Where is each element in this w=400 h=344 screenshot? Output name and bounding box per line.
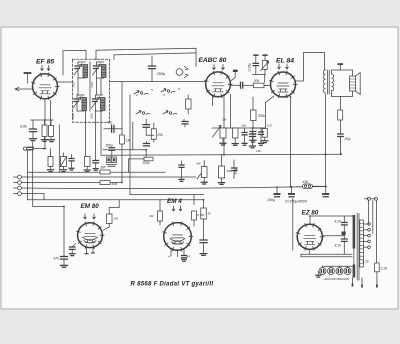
power transformer primary winding	[360, 220, 364, 267]
capacitor 250p	[151, 56, 153, 66]
ground under tone resistor	[219, 183, 225, 185]
screen decoupling capacitor	[32, 120, 34, 129]
resistor tone network	[219, 166, 225, 178]
svg-text:47n: 47n	[54, 257, 60, 261]
band switch contact S1b	[161, 88, 166, 92]
capacitor c3 under EABC	[260, 128, 262, 132]
IF tuned circuit 3	[76, 95, 78, 99]
svg-text:10n: 10n	[256, 149, 261, 153]
wire loop B top rail	[96, 48, 196, 66]
svg-text:7500: 7500	[90, 81, 94, 88]
svg-text:300p: 300p	[234, 167, 238, 175]
capacitor left of tone pot	[181, 161, 183, 165]
output transformer primary	[323, 70, 325, 93]
resistor 42k smoothing	[297, 186, 303, 188]
IF tuned circuit 1	[77, 62, 79, 66]
tube EF 85	[33, 74, 58, 99]
svg-text:6,3V: 6,3V	[363, 260, 370, 264]
capacitor c1 under EABC	[244, 128, 246, 133]
ground under c3	[259, 143, 264, 145]
ground under capacitor	[179, 179, 184, 181]
svg-text:20k: 20k	[253, 79, 260, 83]
bus line AVC	[27, 171, 165, 173]
EABC diode wire down	[230, 95, 232, 129]
screen resistor R2	[49, 126, 54, 137]
svg-text:1M: 1M	[100, 166, 105, 170]
tube EL 84	[271, 72, 296, 97]
diode detector	[61, 157, 67, 167]
svg-text:4: 4	[168, 255, 170, 259]
tube EM 4	[164, 223, 192, 251]
wire mid-left node	[58, 125, 60, 172]
ground under R1	[42, 140, 48, 142]
resistor under diode	[233, 128, 239, 138]
wire feed EM80	[33, 152, 64, 257]
capacitor 4,7n	[342, 239, 348, 241]
ground under 1M	[48, 170, 54, 172]
feed rail to EM stage	[27, 199, 203, 201]
loudspeaker	[350, 76, 356, 91]
svg-text:125: 125	[267, 124, 272, 128]
EABC cathode wire down	[223, 97, 225, 155]
output transformer core	[328, 70, 330, 94]
electrolytic capacitor 3	[325, 187, 327, 194]
ground under c2	[250, 146, 256, 148]
long HT rail	[101, 154, 341, 155]
antenna symbol	[27, 74, 29, 84]
svg-text:45: 45	[187, 255, 191, 259]
IF tuned circuit 2	[96, 62, 98, 66]
svg-text:EF 85: EF 85	[36, 59, 54, 66]
coupling capacitor to EL84	[231, 84, 241, 86]
ground under potentiometer	[220, 143, 226, 145]
EABC bottom pin stub	[212, 97, 214, 106]
junction dot	[342, 232, 346, 236]
bus line 3 long	[21, 186, 326, 188]
junction dots	[63, 206, 65, 208]
power transformer HV winding	[353, 215, 356, 249]
band switch contact S1d	[163, 110, 168, 114]
heater leads above EL 84	[278, 64, 281, 69]
wire 220k to bus	[129, 159, 145, 172]
primary taps	[363, 223, 367, 225]
resistor 20k near switch	[186, 99, 192, 109]
EZ80 cathode wire	[323, 235, 344, 237]
ground under resistor	[232, 144, 238, 146]
wire EM80 resistor to rail	[109, 201, 119, 215]
cathode resistor R1	[42, 125, 47, 137]
capacitor 20u	[338, 134, 344, 137]
svg-text:250p: 250p	[156, 72, 165, 76]
wire loop A over IF box	[63, 50, 86, 75]
svg-text:20µ: 20µ	[344, 137, 351, 141]
oscillator coil components	[151, 129, 156, 140]
mains terminals	[367, 197, 370, 200]
svg-text:2M: 2M	[195, 162, 201, 166]
svg-text:700k: 700k	[258, 114, 266, 118]
svg-text:3300: 3300	[90, 112, 94, 119]
IF box output wires down	[85, 111, 87, 157]
svg-text:4,7n: 4,7n	[335, 244, 342, 248]
EL84 plate wire to output transformer	[296, 53, 325, 82]
capacitor chain	[200, 240, 207, 243]
svg-text:4,2n: 4,2n	[335, 220, 342, 224]
svg-text:2: 2	[135, 93, 138, 97]
EZ80 anode wire to transformer	[310, 216, 353, 225]
padding trimmer block	[106, 157, 111, 163]
svg-text:50k: 50k	[112, 182, 118, 186]
svg-text:R 8568 F Diadal VT gyári/II: R 8568 F Diadal VT gyári/II	[131, 281, 214, 287]
EM4 left resistor	[159, 200, 161, 211]
svg-text:~110/125/150/220V: ~110/125/150/220V	[323, 277, 351, 281]
svg-text:EL 84: EL 84	[276, 57, 294, 64]
ground under capacitor	[30, 139, 37, 141]
svg-text:220k: 220k	[142, 161, 150, 165]
pickup jack	[176, 69, 183, 76]
svg-text:4: 4	[163, 93, 165, 97]
IF box internal wires	[77, 78, 79, 95]
heater leads above EABC 80	[213, 65, 216, 70]
svg-text:5,6k: 5,6k	[20, 125, 27, 129]
resistor 1k to output	[340, 97, 342, 111]
ground under 100p	[69, 168, 74, 170]
wire EF85 cathode down	[44, 100, 46, 149]
IF transformer dashed box	[73, 59, 110, 122]
heater leads above EM 4	[172, 206, 175, 211]
pickup terminal stub	[32, 142, 34, 152]
vertical wires band switch area	[121, 82, 123, 136]
resistor vertical cluster B	[85, 157, 91, 167]
bus segment to EM4	[130, 193, 204, 195]
HT feed down from transformer	[325, 94, 327, 186]
heater leads above EF 85	[41, 66, 44, 71]
wire detector node	[212, 127, 264, 129]
resistor 700k	[252, 97, 254, 110]
grid top cap EABC	[233, 70, 238, 72]
band switch contact S1c	[136, 110, 141, 114]
wire AVC node down	[26, 151, 28, 200]
oscillator mid rail	[103, 149, 146, 151]
EZ80 heater wires	[309, 251, 311, 255]
svg-text:30k: 30k	[241, 124, 246, 128]
tube EM 80	[78, 223, 103, 248]
ground under R2	[49, 140, 55, 142]
resistor 5k chain	[203, 200, 205, 208]
fuse	[375, 263, 380, 272]
ground under capacitor	[61, 265, 68, 267]
svg-text:7500: 7500	[72, 81, 76, 88]
ground under tone pot	[201, 182, 207, 184]
tube EABC 80	[206, 72, 231, 97]
ground at selector	[317, 272, 319, 276]
grid resistor 20k horizontal	[254, 83, 265, 88]
resistor 50k horizontal on bus	[100, 181, 110, 185]
svg-text:3300: 3300	[71, 112, 75, 119]
power transformer heater winding	[353, 265, 356, 278]
power transformer winding link	[353, 249, 355, 265]
mains wires down	[367, 200, 369, 224]
capacitors 0,05u	[253, 54, 258, 56]
resistor 220k	[144, 157, 153, 161]
grid coupling rail	[110, 81, 206, 83]
svg-text:5: 5	[151, 88, 153, 92]
wire EF85 plate to IF box	[58, 81, 73, 83]
voltage selector plugs	[319, 268, 326, 275]
bus line 4	[21, 193, 44, 195]
capacitor c2 under EABC	[252, 128, 254, 134]
wire top of cluster	[31, 119, 54, 121]
wire electrolytic negative lead	[292, 199, 294, 251]
ground chain	[200, 254, 207, 256]
capacitor 47p	[104, 128, 122, 130]
output transformer secondary	[332, 74, 334, 91]
EL84 cathode bypass components	[266, 96, 274, 128]
screen bypass capacitor	[338, 63, 344, 65]
bus line 1	[21, 176, 196, 178]
tube EZ 80	[297, 224, 322, 249]
electrolytic capacitor 2	[291, 187, 293, 193]
svg-text:EM 4: EM 4	[167, 198, 182, 205]
capacitor 500p	[183, 120, 185, 122]
svg-text:1M: 1M	[222, 118, 227, 122]
svg-text:5k: 5k	[208, 212, 212, 216]
grid capacitor EM80	[73, 244, 76, 247]
EM80 bottom pin stubs	[86, 247, 88, 254]
svg-text:1M: 1M	[114, 217, 119, 221]
inner top rail	[114, 53, 196, 60]
svg-text:47p: 47p	[107, 121, 113, 125]
volume potentiometer	[213, 126, 222, 138]
resistor 1M horizontal on bus	[100, 170, 110, 174]
ground under cluster B resistor	[84, 170, 90, 172]
svg-text:500p: 500p	[106, 143, 114, 147]
EL84 cathode wire down	[290, 97, 292, 187]
wire 42k to vertical	[313, 185, 327, 187]
svg-text:1M: 1M	[126, 139, 131, 143]
IF tuned circuit 4	[95, 95, 97, 99]
svg-text:2×150µ/400V: 2×150µ/400V	[284, 199, 308, 203]
speaker wiring loop	[332, 70, 353, 97]
heater leads above EM 80	[84, 214, 87, 219]
band switch contact S1a	[134, 90, 139, 94]
bus line 2	[21, 182, 103, 184]
svg-text:8: 8	[178, 87, 180, 91]
svg-text:EM 80: EM 80	[81, 203, 100, 210]
antenna input arrow	[15, 88, 33, 90]
EM4 right resistor	[193, 194, 195, 204]
svg-text:42k: 42k	[303, 180, 309, 184]
svg-text:0,5M: 0,5M	[197, 213, 204, 217]
vertical wire from IF box to buses	[58, 171, 60, 173]
EM80 anode resistor	[107, 214, 113, 224]
heater leads bottom	[352, 278, 354, 286]
svg-text:0,05µ: 0,05µ	[248, 63, 252, 72]
svg-text:1M: 1M	[149, 214, 154, 218]
capacitor 100p	[71, 155, 73, 159]
AVC capacitor	[23, 147, 26, 150]
capacitor 5n	[95, 159, 97, 162]
EM4 cathode capacitor	[182, 256, 187, 258]
ground under 5n	[93, 169, 98, 171]
ground EM80 grid	[69, 254, 75, 256]
power transformer core	[357, 214, 359, 281]
capacitor 300p tone	[233, 160, 235, 168]
svg-text:0,1A: 0,1A	[381, 267, 388, 271]
tone potentiometer	[197, 167, 206, 179]
padder capacitor	[146, 142, 148, 144]
resistor 1M vertical	[48, 157, 53, 167]
svg-text:50k: 50k	[227, 169, 232, 173]
svg-text:20k: 20k	[157, 133, 164, 137]
svg-text:EABC 80: EABC 80	[199, 57, 227, 64]
EM4 cathode leads	[171, 250, 184, 257]
electrolytic capacitor 1	[276, 187, 278, 193]
ground under c1	[242, 143, 247, 145]
resistor 1M oscillator	[120, 135, 125, 144]
voltage selector top rail	[323, 265, 353, 267]
ground under diode	[61, 170, 67, 172]
terminal circles left	[18, 175, 22, 179]
svg-text:100µ: 100µ	[267, 198, 275, 202]
capacitor under EM80 feed	[61, 257, 68, 260]
